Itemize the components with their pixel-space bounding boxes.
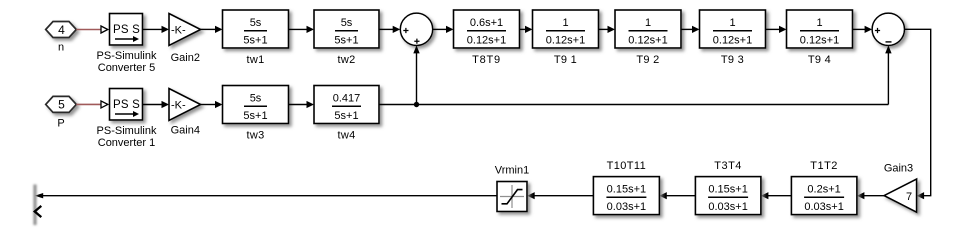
svg-text:0.15s+1: 0.15s+1 xyxy=(607,183,646,195)
block T9 4 xyxy=(787,10,853,66)
svg-text:0.12s+1: 0.12s+1 xyxy=(546,34,585,46)
block tw2 xyxy=(314,10,379,66)
wire T9 3 to T9 4 xyxy=(766,26,787,33)
svg-text:1: 1 xyxy=(645,17,651,29)
wire tw1 to tw2 xyxy=(289,26,315,33)
svg-text:tw3: tw3 xyxy=(246,130,264,142)
svg-text:1: 1 xyxy=(562,17,568,29)
svg-text:0.03s+1: 0.03s+1 xyxy=(607,201,646,213)
svg-text:5s+1: 5s+1 xyxy=(243,110,267,122)
wire branch up to Sum1 xyxy=(413,45,419,104)
block T9 1 xyxy=(533,10,599,66)
wire T1T2 to T3T4 xyxy=(761,192,792,199)
svg-text:0.6s+1: 0.6s+1 xyxy=(470,17,503,29)
physical signal wire port4 to Converter5 xyxy=(76,26,108,33)
wire Converter1 to Gain4 xyxy=(143,101,170,108)
svg-text:0.2s+1: 0.2s+1 xyxy=(807,183,840,195)
svg-text:PS S: PS S xyxy=(113,24,140,36)
svg-text:-K-: -K- xyxy=(171,99,186,111)
svg-text:5s+1: 5s+1 xyxy=(334,110,358,122)
svg-text:T1T2: T1T2 xyxy=(810,160,838,172)
wire Converter5 to Gain2 xyxy=(143,26,170,33)
block T9 3 xyxy=(700,10,766,66)
svg-text:T9 3: T9 3 xyxy=(721,54,744,66)
wire T9 4 to Sum2 xyxy=(853,26,873,33)
wire T10T11 to Vrmin1 xyxy=(527,192,593,199)
svg-text:5s: 5s xyxy=(250,92,262,104)
block tw1 xyxy=(223,10,289,66)
svg-text:Converter 1: Converter 1 xyxy=(98,137,155,149)
svg-text:Converter 5: Converter 5 xyxy=(98,62,155,74)
physical signal wire port5 to Converter1 xyxy=(76,101,108,108)
svg-text:0.12s+1: 0.12s+1 xyxy=(467,34,506,46)
wire T3T4 to T10T11 xyxy=(659,192,695,199)
svg-text:Gain3: Gain3 xyxy=(884,162,913,174)
wire T8T9 to T9 1 xyxy=(520,26,533,33)
block PS-Simulink Converter1 xyxy=(97,89,157,150)
gain Gain2 xyxy=(169,14,201,65)
svg-text:T3T4: T3T4 xyxy=(714,160,742,172)
svg-text:7: 7 xyxy=(906,191,912,203)
wire T9 2 to T9 3 xyxy=(681,26,700,33)
svg-text:5s+1: 5s+1 xyxy=(243,34,267,46)
svg-text:5s+1: 5s+1 xyxy=(334,34,358,46)
svg-text:P: P xyxy=(57,117,64,129)
svg-text:5s: 5s xyxy=(250,17,262,29)
sum Sum1 xyxy=(400,13,432,45)
svg-text:Gain2: Gain2 xyxy=(171,52,200,64)
saturation Vrmin1 xyxy=(495,165,529,212)
block T8T9 xyxy=(454,10,520,66)
port 5 (P) xyxy=(46,96,77,129)
junction at tw4 branch xyxy=(414,102,419,107)
gain Gain4 xyxy=(169,89,201,137)
block T3T4 xyxy=(695,160,761,215)
wire Vrmin1 to left edge output xyxy=(35,193,497,198)
wire T9 1 to T9 2 xyxy=(599,26,616,33)
svg-text:1: 1 xyxy=(816,17,822,29)
svg-text:T9 2: T9 2 xyxy=(636,54,659,66)
shadow of off-screen block at left edge xyxy=(33,185,36,226)
open arrow (unconnected line end) at left edge xyxy=(35,206,42,217)
svg-text:T9 1: T9 1 xyxy=(554,54,577,66)
port 4 (n) xyxy=(46,22,77,54)
block T1T2 xyxy=(791,160,857,215)
svg-text:Vrmin1: Vrmin1 xyxy=(495,165,529,177)
svg-text:Gain4: Gain4 xyxy=(171,125,200,137)
wire Sum2 to Gain3 (right feedback) xyxy=(905,29,931,199)
svg-text:0.417: 0.417 xyxy=(333,92,361,104)
svg-text:tw4: tw4 xyxy=(337,130,355,142)
wire Gain4 to tw3 xyxy=(201,101,223,108)
gain Gain3 (7) xyxy=(884,162,917,212)
wire tw2 to Sum1 xyxy=(379,26,400,33)
wire Gain2 to tw1 xyxy=(201,26,223,33)
svg-text:T9 4: T9 4 xyxy=(808,54,831,66)
block tw4 xyxy=(314,86,379,142)
svg-text:0.12s+1: 0.12s+1 xyxy=(800,34,839,46)
wire tw4 trunk to below Sum2 xyxy=(379,104,888,106)
svg-text:0.03s+1: 0.03s+1 xyxy=(708,201,747,213)
svg-text:T8T9: T8T9 xyxy=(472,54,501,66)
svg-text:tw1: tw1 xyxy=(246,54,264,66)
svg-text:tw2: tw2 xyxy=(337,54,355,66)
svg-text:5s: 5s xyxy=(341,17,353,29)
wire tw3 to tw4 xyxy=(289,101,315,108)
svg-text:0.12s+1: 0.12s+1 xyxy=(713,34,752,46)
sum Sum2 xyxy=(872,13,904,45)
svg-text:PS S: PS S xyxy=(113,99,140,111)
wire up to Sum2 xyxy=(885,45,891,104)
svg-text:n: n xyxy=(58,42,64,54)
svg-text:4: 4 xyxy=(58,23,65,37)
svg-text:T10T11: T10T11 xyxy=(607,160,647,172)
svg-text:1: 1 xyxy=(729,17,735,29)
svg-text:PS-Simulink: PS-Simulink xyxy=(97,50,157,62)
svg-text:0.03s+1: 0.03s+1 xyxy=(804,201,843,213)
wire Sum1 to T8T9 xyxy=(433,26,454,33)
svg-text:PS-Simulink: PS-Simulink xyxy=(97,125,157,137)
block T9 2 xyxy=(615,10,681,66)
svg-text:5: 5 xyxy=(58,98,65,112)
block PS-Simulink Converter5 xyxy=(97,14,157,75)
svg-text:-K-: -K- xyxy=(171,24,186,36)
wire Gain3 to T1T2 xyxy=(857,192,884,199)
block T10T11 xyxy=(593,160,659,215)
svg-text:0.15s+1: 0.15s+1 xyxy=(708,183,747,195)
svg-text:0.12s+1: 0.12s+1 xyxy=(628,34,667,46)
block tw3 xyxy=(223,86,289,142)
